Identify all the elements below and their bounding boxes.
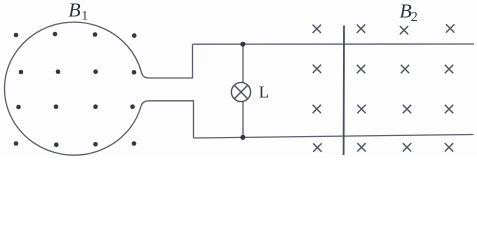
B2 field crosses row 4 — [313, 143, 453, 152]
wire bottom stub from loop — [141, 101, 193, 138]
wire bottom rail — [194, 135, 474, 139]
B2 field crosses row 2 — [313, 65, 454, 74]
sliding rod — [343, 26, 345, 156]
junction bottom node — [240, 135, 245, 140]
B1 field dots row 4 — [14, 141, 137, 147]
B1 field dots row 1 — [14, 32, 137, 38]
wire lamp branch upper — [242, 44, 244, 82]
svg-text:2: 2 — [411, 10, 418, 25]
svg-text:B: B — [68, 0, 80, 22]
wire lamp branch lower — [242, 102, 244, 138]
lamp L — [231, 82, 250, 101]
B1 field dots row 2 — [19, 69, 137, 74]
B1 field dots row 3 — [16, 104, 135, 109]
svg-text:L: L — [259, 83, 269, 102]
circular loop (left coil region boundary) — [5, 22, 142, 155]
svg-text:1: 1 — [82, 8, 89, 23]
B2 field crosses row 1 — [313, 24, 455, 34]
junction top node — [240, 42, 245, 47]
wire top rail — [193, 43, 475, 45]
wire top stub from loop — [141, 44, 192, 78]
B2 field crosses row 3 — [313, 105, 454, 114]
